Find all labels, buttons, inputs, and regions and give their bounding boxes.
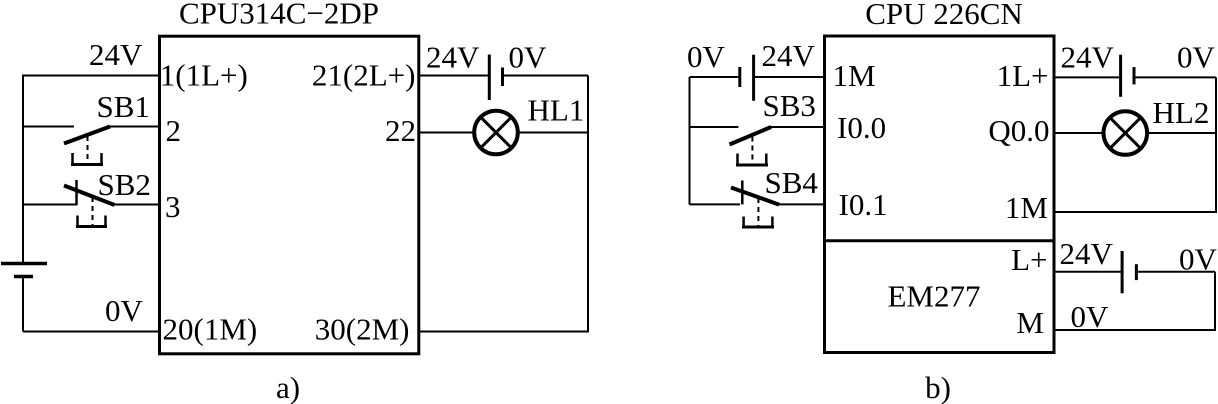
wire SB1 left segment <box>23 126 74 128</box>
wire pin L+ to battery <box>1054 271 1122 273</box>
wire SB1 right segment to pin 2 <box>109 126 160 128</box>
svg-text:L+: L+ <box>1011 242 1047 277</box>
wire right rail vertical <box>587 76 589 332</box>
svg-text:CPU314C−2DP: CPU314C−2DP <box>179 0 379 31</box>
svg-text:a): a) <box>276 370 300 404</box>
wire SB4 left segment <box>690 203 741 205</box>
svg-text:SB3: SB3 <box>763 88 816 123</box>
wire pin 1M to right rail b <box>1054 211 1217 213</box>
wire left bus upper segment <box>22 75 24 263</box>
wire pin M to right rail <box>1054 329 1216 331</box>
wire SB3 right segment to pin I0.0 <box>770 126 825 128</box>
pushbutton SB4 blade (NC contact) <box>731 188 779 205</box>
svg-text:1M: 1M <box>1005 190 1048 225</box>
PLC module U1 box CPU314C-2DP <box>160 36 419 354</box>
pushbutton SB3 blade (NO contact) <box>730 127 772 145</box>
battery GB4 short plate (-) <box>1133 67 1136 84</box>
pushbutton SB2 fixed contact tick (NC) <box>75 180 78 205</box>
pushbutton SB3 actuator head <box>738 154 767 165</box>
wire right rail vertical EM277 <box>1214 272 1216 330</box>
svg-text:22: 22 <box>385 113 416 148</box>
svg-text:HL2: HL2 <box>1153 95 1210 130</box>
svg-text:SB1: SB1 <box>97 89 150 124</box>
module divider line EM277 <box>825 239 1055 242</box>
svg-text:24V: 24V <box>1060 236 1114 271</box>
battery GB2 long plate (+) <box>488 55 491 101</box>
wire left bus lower segment <box>22 277 24 332</box>
svg-text:30(2M): 30(2M) <box>315 312 410 347</box>
wire SB3 left segment <box>690 126 739 128</box>
pushbutton SB1 actuator head <box>73 153 102 164</box>
wire SB2 right segment to pin 3 <box>113 204 160 206</box>
wire pin Q0.0 to lamp <box>1054 132 1104 134</box>
wire pin 30 to right rail <box>419 331 589 333</box>
lamp HL2 cross <box>1110 118 1141 149</box>
pushbutton SB2 actuator head <box>78 216 106 227</box>
lamp HL1 circle <box>474 111 518 155</box>
svg-text:0V: 0V <box>509 40 548 75</box>
wire 24V rail to pin 1 <box>23 75 160 77</box>
svg-text:21(2L+): 21(2L+) <box>312 58 416 93</box>
svg-text:0V: 0V <box>105 293 144 328</box>
svg-text:CPU 226CN: CPU 226CN <box>865 0 1023 31</box>
pushbutton SB4 actuator head <box>744 217 773 227</box>
svg-text:0V: 0V <box>1071 299 1110 334</box>
wire battery to right rail <box>503 75 589 77</box>
svg-text:M: M <box>1016 305 1044 340</box>
wire lamp to right rail <box>518 132 589 134</box>
PLC module U2 box CPU 226CN <box>825 36 1055 353</box>
svg-text:20(1M): 20(1M) <box>163 312 258 347</box>
wire left bus to battery <box>690 76 740 78</box>
wire pin 1L+ to battery <box>1054 76 1121 78</box>
svg-text:1L+: 1L+ <box>997 58 1049 93</box>
svg-text:1M: 1M <box>833 58 876 93</box>
svg-text:24V: 24V <box>89 37 143 72</box>
svg-text:24V: 24V <box>1061 40 1115 75</box>
svg-text:24V: 24V <box>762 38 816 73</box>
wire right rail vertical b top <box>1215 77 1217 212</box>
battery GB1 short plate (-) <box>14 275 33 279</box>
wire pin 22 to lamp <box>419 132 475 134</box>
wire battery to pin 1M <box>754 76 825 78</box>
wire left bus vertical b <box>689 77 691 204</box>
svg-text:I0.1: I0.1 <box>839 187 888 222</box>
battery GB3 short plate (-) <box>738 67 741 87</box>
wire SB4 right segment to pin I0.1 <box>778 203 825 205</box>
pushbutton SB3 actuator dashed link <box>751 137 753 166</box>
battery GB2 short plate (-) <box>501 68 504 87</box>
svg-text:Q0.0: Q0.0 <box>988 113 1049 148</box>
battery GB3 long plate (+) <box>752 55 755 101</box>
svg-text:1(1L+): 1(1L+) <box>160 58 248 93</box>
svg-text:HL1: HL1 <box>528 93 585 128</box>
svg-text:2: 2 <box>166 113 182 148</box>
battery GB5 short plate (-) <box>1135 264 1138 280</box>
svg-text:I0.0: I0.0 <box>837 110 886 145</box>
pushbutton SB1 blade (NO contact) <box>64 127 110 144</box>
lamp HL2 circle <box>1104 111 1148 155</box>
battery GB1 long plate (+) <box>1 262 47 266</box>
wire battery to right rail b top <box>1134 76 1216 78</box>
svg-text:3: 3 <box>165 189 181 224</box>
svg-text:SB4: SB4 <box>765 165 819 200</box>
svg-text:SB2: SB2 <box>98 167 151 202</box>
svg-text:EM277: EM277 <box>888 279 981 314</box>
svg-text:0V: 0V <box>687 39 726 74</box>
pushbutton SB4 actuator dashed link <box>757 198 759 227</box>
wire 0V rail to pin 20 <box>23 331 160 333</box>
pushbutton SB2 blade (NC contact) <box>64 186 115 206</box>
wire lamp to right rail b <box>1147 132 1216 134</box>
svg-text:0V: 0V <box>1177 40 1216 75</box>
svg-text:b): b) <box>925 370 951 404</box>
svg-text:24V: 24V <box>426 40 480 75</box>
wire battery to right rail EM277 <box>1136 271 1215 273</box>
wire pin 21 to battery <box>419 75 490 77</box>
lamp HL1 cross <box>481 117 512 148</box>
wire SB2 left segment <box>23 204 78 206</box>
pushbutton SB4 fixed contact tick (NC) <box>741 181 744 205</box>
battery GB4 long plate (+) <box>1119 55 1122 97</box>
pushbutton SB1 actuator dashed link <box>87 136 89 164</box>
pushbutton SB2 actuator dashed link <box>92 197 94 226</box>
battery GB5 long plate (+) <box>1121 251 1124 293</box>
